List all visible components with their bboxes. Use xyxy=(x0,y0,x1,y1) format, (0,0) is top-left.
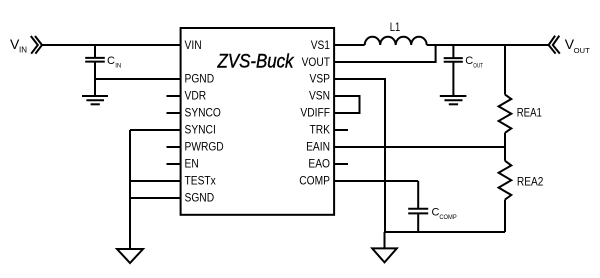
svg-text:VDR: VDR xyxy=(185,91,207,103)
svg-text:REA1: REA1 xyxy=(517,108,542,120)
label COUT value xyxy=(465,55,483,70)
svg-text:PWRGD: PWRGD xyxy=(185,142,224,154)
resistor REA2 xyxy=(499,147,512,232)
svg-text:EN: EN xyxy=(185,159,199,171)
capacitor C1 CIN xyxy=(85,45,105,96)
ground earth symbol at COUT xyxy=(440,96,467,104)
wire left ground bus vertical xyxy=(129,130,131,249)
svg-text:TRK: TRK xyxy=(310,125,331,137)
wire output net top xyxy=(427,44,549,46)
svg-text:COMP: COMP xyxy=(299,176,330,188)
svg-text:SYNCO: SYNCO xyxy=(185,108,221,120)
wire VOUT pin to output node xyxy=(335,45,436,62)
svg-text:VSP: VSP xyxy=(310,74,331,86)
svg-text:C: C xyxy=(465,55,473,67)
wire EAIN net xyxy=(335,146,506,148)
op-amp U1 ZVS-Buck IC body xyxy=(181,28,335,215)
svg-text:C: C xyxy=(432,206,440,218)
svg-text:EAIN: EAIN xyxy=(306,142,330,154)
svg-text:C: C xyxy=(107,55,115,67)
pin SYNCO stub xyxy=(167,112,182,114)
wire PGND net xyxy=(95,78,182,80)
capacitor C3 CCOMP xyxy=(408,181,428,232)
svg-text:VS1: VS1 xyxy=(311,40,330,52)
svg-text:VSN: VSN xyxy=(309,91,330,103)
svg-text:PGND: PGND xyxy=(185,74,215,86)
inductor L1 xyxy=(365,37,427,45)
wire VS1 to inductor xyxy=(335,44,365,46)
wire bottom feedback ground bus xyxy=(385,231,505,233)
svg-text:EAO: EAO xyxy=(308,159,330,171)
label CIN value xyxy=(107,55,121,69)
svg-text:VOUT: VOUT xyxy=(302,57,330,69)
ground earth symbol at CIN xyxy=(82,96,108,104)
ground signal triangle right xyxy=(372,248,397,262)
wire SYNCI net xyxy=(130,129,182,131)
wire SGND net xyxy=(130,197,182,199)
label VIN terminal xyxy=(10,36,27,55)
svg-text:VIN: VIN xyxy=(185,40,202,52)
wire stub to right ground triangle xyxy=(384,232,386,248)
ground signal triangle left xyxy=(117,249,143,263)
wire VSP net xyxy=(335,79,386,232)
svg-text:REA2: REA2 xyxy=(517,177,544,189)
wire COMP net xyxy=(335,180,419,182)
wire TESTx net xyxy=(130,180,182,182)
terminal VIN chevron xyxy=(31,36,42,54)
svg-text:COMP: COMP xyxy=(439,215,456,221)
svg-text:OUT: OUT xyxy=(574,46,591,55)
capacitor C2 COUT xyxy=(444,45,463,96)
svg-text:SYNCI: SYNCI xyxy=(185,125,216,137)
svg-text:TESTx: TESTx xyxy=(185,176,217,188)
svg-text:VDIFF: VDIFF xyxy=(300,108,330,120)
svg-text:ZVS-Buck: ZVS-Buck xyxy=(217,51,295,73)
wire VIN input net xyxy=(42,44,182,46)
pin PWRGD stub xyxy=(167,146,182,148)
svg-text:OUT: OUT xyxy=(473,64,483,70)
wire VSN-VDIFF loop xyxy=(335,96,360,113)
svg-text:IN: IN xyxy=(115,63,121,69)
svg-text:SGND: SGND xyxy=(185,193,215,205)
terminal VOUT chevron xyxy=(549,36,560,54)
label VOUT terminal xyxy=(565,36,590,55)
pin EN stub xyxy=(167,163,182,165)
svg-text:IN: IN xyxy=(19,46,27,55)
resistor REA1 xyxy=(499,45,512,147)
label CCOMP value xyxy=(432,206,457,221)
pin TRK stub xyxy=(335,129,349,131)
svg-text:L1: L1 xyxy=(390,22,401,34)
pin EAO stub xyxy=(335,163,349,165)
pin VDR stub xyxy=(167,95,182,97)
